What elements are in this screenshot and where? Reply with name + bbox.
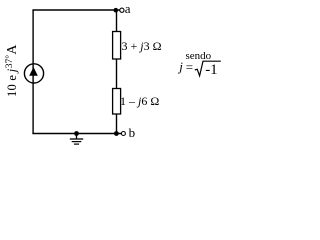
ground junction dot <box>74 131 79 136</box>
impedance Z2 1-j6 box <box>113 89 121 115</box>
svg-text:10 e: 10 e <box>5 75 19 97</box>
impedance Z1 3+j3 box <box>113 32 121 60</box>
ground <box>70 134 83 145</box>
svg-text:b: b <box>129 125 136 140</box>
node junction dot top <box>114 8 119 13</box>
svg-text:A: A <box>4 45 19 55</box>
wire: left vertical branch <box>32 10 34 134</box>
wire: bottom horizontal from left branch to node b <box>32 133 121 135</box>
svg-text:j: j <box>177 59 183 74</box>
node b terminal circle <box>121 132 125 136</box>
svg-text:37°: 37° <box>4 55 15 69</box>
current source I1 <box>24 64 43 83</box>
svg-text:a: a <box>125 1 131 16</box>
annotation: j = √-1 <box>177 59 221 78</box>
svg-text:=: = <box>186 60 193 75</box>
svg-text:1 – j6 Ω: 1 – j6 Ω <box>120 94 159 108</box>
svg-text:3 + j3 Ω: 3 + j3 Ω <box>122 39 162 53</box>
node junction dot bottom <box>114 131 119 136</box>
value label: 10 e^j37° A (rotated) <box>4 45 19 97</box>
wire: middle vertical branch <box>116 10 118 134</box>
svg-text:-1: -1 <box>205 62 218 78</box>
node a terminal circle <box>120 8 124 12</box>
wire: top horizontal from left branch to node a <box>32 9 121 11</box>
